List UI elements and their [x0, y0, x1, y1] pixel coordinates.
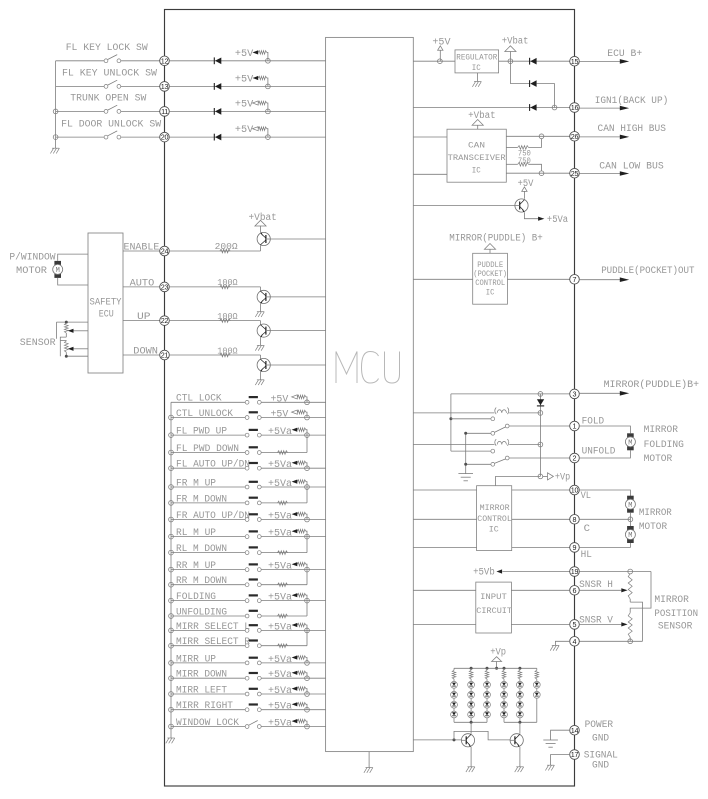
+5Va pull-up (FR M UP): [268, 478, 307, 489]
LED D24: [468, 711, 475, 718]
svg-text:6: 6: [573, 586, 577, 595]
label TRUNK OPEN SW: [70, 93, 146, 104]
junction (bus / FR AUTO UP/DN): [169, 517, 174, 522]
+5Va pull-up (MIRR DOWN): [268, 669, 307, 680]
+5Va pull-up (MIRR LEFT): [268, 685, 307, 696]
wire LED link: [536, 688, 538, 691]
svg-text:3: 3: [573, 390, 577, 399]
svg-text:+5Va: +5Va: [268, 701, 292, 712]
wire LED column 4 to return bus: [503, 718, 505, 722]
+5Va pull-up (MIRR SELECT L): [268, 621, 307, 632]
wire sensor wiper lower: [68, 347, 88, 351]
transistor (AUTO driver): [257, 290, 270, 303]
wire HL to pin 9: [512, 546, 570, 548]
wire RR M UP to MCU: [261, 569, 325, 571]
svg-text:23: 23: [161, 283, 169, 292]
+5Va pull-up (RL M UP): [268, 528, 307, 539]
svg-text:SNSR H: SNSR H: [579, 579, 613, 590]
motor M4 (mirror horizontal): [625, 526, 635, 543]
wire RL M UP to MCU: [261, 536, 325, 538]
LED D31: [484, 681, 491, 688]
junction (bus / MIRR UP): [169, 661, 174, 666]
resistor sensor H: [628, 574, 632, 603]
ground (DOWN driver): [255, 380, 264, 385]
svg-text:FOLD: FOLD: [582, 416, 605, 427]
+B feed (puddle IC): [484, 244, 495, 254]
label FOLDING: [176, 591, 216, 602]
pin 19: [570, 567, 580, 577]
switch FR M UP: [171, 481, 261, 489]
MCU label: [336, 352, 400, 384]
pin 15: [570, 56, 580, 66]
wire MCU to 5Va transistor base: [413, 205, 515, 207]
junction (+Vp node): [538, 474, 543, 479]
switch FL AUTO UP/DN: [171, 462, 261, 470]
wire regulator ground: [477, 73, 479, 82]
diode D2 (backup feed): [530, 80, 537, 87]
junction (common 2): [464, 463, 467, 466]
svg-text:CAN: CAN: [468, 140, 485, 150]
wire FR AUTO UP/DN to MCU: [261, 519, 325, 521]
wire pin 3 row: [451, 393, 570, 395]
wire relay supply vertical: [450, 394, 452, 451]
svg-text:M: M: [628, 532, 632, 540]
junction (bus / FL DOOR UNLOCK SW): [53, 135, 58, 140]
label MIRR LEFT: [176, 684, 227, 695]
label HL: [581, 549, 592, 560]
+5V tap (regulator output): [432, 37, 450, 62]
ground (POWER GND): [543, 740, 558, 747]
module boundary frame: [165, 10, 575, 787]
wire collector to MCU (DOWN): [270, 364, 325, 366]
svg-text:+5Va: +5Va: [268, 511, 292, 522]
wire base T (AUTO): [260, 287, 262, 292]
junction (bus / RL M UP): [169, 534, 174, 539]
label DOWN: [133, 346, 158, 357]
svg-text:5: 5: [573, 620, 577, 629]
wire to relay contact 1 upper throw: [451, 418, 491, 420]
label FOLD: [582, 416, 605, 427]
svg-text:100Ω: 100Ω: [217, 277, 238, 288]
junction (pull-up FL AUTO UP/DN): [305, 466, 310, 471]
svg-text:200Ω: 200Ω: [215, 241, 238, 252]
net CAN HIGH BUS: [579, 123, 666, 139]
label INPUT CIRCUIT: [476, 592, 512, 616]
LED D43: [501, 701, 508, 708]
wire RR M DOWN to shared pull-up: [261, 570, 307, 585]
wire Q2 collector: [519, 722, 521, 734]
pin 24: [160, 246, 170, 256]
wire pin 19 to sensor top: [579, 571, 651, 573]
wire +Vbat to D2: [510, 61, 529, 83]
net IGN1(BACK UP): [579, 95, 668, 111]
ground (AUTO driver): [255, 312, 264, 317]
junction (bus / UNFOLDING): [169, 614, 174, 619]
wire LED link: [453, 708, 455, 711]
pin 5: [570, 620, 580, 630]
svg-text:+5V: +5V: [235, 98, 253, 109]
svg-text:POSITION: POSITION: [654, 608, 698, 619]
junction (pull-up RL M UP): [305, 534, 310, 539]
svg-text:21: 21: [161, 351, 169, 360]
svg-text:100Ω: 100Ω: [217, 345, 238, 356]
wire puddle IC to pin 7: [507, 278, 569, 280]
wire DOWN row: [123, 354, 160, 356]
label FL DOOR UNLOCK SW: [61, 118, 161, 129]
wire MIRR LEFT to MCU: [261, 693, 325, 695]
wire LED link: [470, 708, 472, 711]
wire MCU to regulator IC: [413, 60, 455, 62]
wire LED column 1 to return bus: [453, 718, 455, 722]
switch CTL LOCK: [171, 396, 261, 404]
label UNFOLD: [582, 446, 616, 457]
pin 11: [160, 107, 170, 117]
junction (+5V pull-up 11): [266, 109, 271, 114]
switch MIRR SELECT L: [171, 624, 261, 632]
wire base jog to Q2: [454, 731, 510, 740]
wire pin 17 to signal ground: [551, 755, 571, 766]
svg-text:26: 26: [571, 132, 579, 141]
svg-text:MIRROR: MIRROR: [644, 424, 679, 435]
svg-text:24: 24: [161, 247, 169, 256]
wire base T (DOWN): [260, 355, 262, 360]
wire emitter to ground (AUTO): [260, 303, 262, 312]
wire sensor wiper upper: [68, 329, 88, 333]
net +Vp (LED array): [490, 647, 506, 669]
motor M (P/WINDOW): [53, 261, 63, 278]
junction (pull-up MIRR LEFT): [305, 692, 310, 697]
label SNSR V: [579, 614, 613, 625]
label FL KEY UNLOCK SW: [62, 68, 157, 79]
LED D11: [451, 681, 458, 688]
switch FR AUTO UP/DN: [171, 513, 261, 521]
wire AUTO row: [123, 286, 160, 288]
transistor Q2 (LED driver): [510, 734, 523, 747]
wire regulator to pin 15: [499, 60, 570, 62]
wire UNFOLDING to shared pull-up: [261, 601, 307, 616]
wire base T1: [260, 245, 262, 251]
wire LED link: [486, 708, 488, 711]
svg-text:7: 7: [573, 275, 577, 284]
relay coil K1 (fold): [413, 408, 540, 415]
svg-text:+5Va: +5Va: [268, 654, 292, 665]
+5V pull-up (input 20): [235, 124, 268, 137]
junction (pull-up WINDOW LOCK): [305, 724, 310, 729]
svg-text:+5Va: +5Va: [268, 669, 292, 680]
wire MIRR RIGHT to MCU: [261, 709, 325, 711]
svg-text:+5Vb: +5Vb: [473, 566, 495, 577]
switch UNFOLDING: [171, 610, 261, 618]
switch RR M UP: [171, 563, 261, 571]
svg-text:CAN HIGH BUS: CAN HIGH BUS: [598, 123, 667, 134]
switch MIRR LEFT: [171, 688, 261, 696]
svg-text:SENSOR: SENSOR: [658, 621, 693, 632]
wire UP row: [123, 320, 160, 322]
+5V pull-up (CTL LOCK): [271, 393, 308, 404]
svg-text:22: 22: [161, 316, 169, 325]
LED D54: [517, 711, 524, 718]
resistor (LED column 5): [518, 668, 522, 681]
pin 7: [570, 275, 580, 285]
ground (switch bus): [50, 148, 59, 153]
LED D53: [517, 701, 524, 708]
resistor 100Ω (UP): [217, 311, 238, 323]
junction (pin3 / diode): [538, 392, 543, 397]
label SNSR H: [579, 579, 613, 590]
net +5Va output: [524, 212, 568, 225]
svg-text:+5V: +5V: [235, 124, 253, 135]
wire LED link: [486, 698, 488, 701]
svg-text:+5Va: +5Va: [268, 459, 292, 470]
transistor T1 (enable driver): [257, 232, 270, 245]
LED D22: [468, 691, 475, 698]
label MIRR SELECT R: [176, 636, 250, 647]
wire LED link: [519, 698, 521, 701]
junction (pull-up MIRR RIGHT): [305, 707, 310, 712]
svg-text:4: 4: [573, 637, 577, 646]
svg-text:VL: VL: [581, 490, 592, 501]
LED D42: [501, 691, 508, 698]
ground (UP driver): [255, 345, 264, 350]
junction (pull-up RR M UP): [305, 567, 310, 572]
svg-text:19: 19: [571, 567, 579, 576]
wire pin 6 wiper (SNSR H): [579, 588, 627, 592]
+5Va pull-up (MIRR UP): [268, 654, 307, 665]
label POWER GND: [585, 719, 614, 744]
svg-text:MIRROR(PUDDLE) B+: MIRROR(PUDDLE) B+: [449, 233, 543, 244]
label SAFETY ECU: [90, 296, 122, 319]
+5Va pull-up (FL PWD UP): [268, 426, 307, 437]
switch MIRR SELECT R: [171, 639, 261, 647]
junction (bus / RR M DOWN): [169, 582, 174, 587]
transistor Q3 (+5Va switch): [515, 199, 528, 212]
svg-text:+Vbat: +Vbat: [249, 212, 277, 223]
wire Q1 emitter to ground: [470, 747, 472, 767]
svg-text:IGN1(BACK UP): IGN1(BACK UP): [595, 95, 669, 106]
svg-text:25: 25: [571, 169, 579, 178]
wire MCU to input circuit (V): [413, 623, 476, 625]
resistor 750 (CANH term): [506, 139, 541, 158]
+5V pull-up (CTL UNLOCK): [271, 409, 308, 420]
LED D44: [501, 711, 508, 718]
label RL M UP: [176, 527, 216, 538]
pin 20: [160, 132, 170, 142]
pin 4: [570, 637, 580, 647]
pin 10: [570, 485, 580, 495]
svg-text:MIRROR: MIRROR: [639, 507, 672, 518]
junction (return bus 1): [470, 721, 473, 724]
label FL KEY LOCK SW: [66, 42, 148, 53]
wire LED link: [470, 698, 472, 701]
wire CTL LOCK to MCU: [261, 401, 325, 403]
wire MCU to mirror control (VL): [413, 489, 476, 491]
switch TRUNK OPEN SW: [56, 105, 160, 113]
switch FOLDING: [171, 594, 261, 602]
+5Va pull-up (FR AUTO UP/DN): [268, 511, 307, 522]
svg-text:TRANSCEIVER: TRANSCEIVER: [448, 153, 506, 163]
wire MCU ground stem: [368, 752, 370, 768]
junction (bus / CTL UNLOCK): [169, 415, 174, 420]
svg-text:MIRROR: MIRROR: [654, 594, 689, 605]
junction (bus / RL M DOWN): [169, 550, 174, 555]
svg-text:SNSR V: SNSR V: [579, 614, 613, 625]
input circuit U7 box: [476, 582, 512, 633]
wire motor to safety ECU (lower): [58, 278, 88, 285]
label MIRROR MOTOR: [639, 507, 672, 532]
wire MIRR SELECT R to shared pull-up: [261, 630, 307, 645]
resistor (RR M DOWN): [278, 583, 288, 587]
label RR M DOWN: [176, 575, 227, 586]
+5Va pull-up (WINDOW LOCK): [268, 718, 307, 729]
pin 26: [570, 132, 580, 142]
svg-text:REGULATOR: REGULATOR: [456, 53, 497, 63]
switch WINDOW LOCK: [171, 721, 261, 729]
svg-text:M: M: [56, 267, 60, 275]
junction (coil K1 / supply): [538, 411, 543, 416]
wire FOLDING to MCU: [261, 600, 325, 602]
LED D34: [484, 711, 491, 718]
pin 21: [160, 350, 170, 360]
+Vbat (T1): [249, 212, 277, 226]
LED D41: [501, 681, 508, 688]
label FL PWD DOWN: [176, 443, 239, 454]
pin 16: [570, 103, 580, 113]
resistor 200Ω: [215, 241, 238, 253]
label WINDOW LOCK: [176, 717, 239, 728]
wire MCU to Q1/Q2 base: [413, 739, 461, 741]
label FR AUTO UP/DN: [176, 510, 250, 521]
junction (pull-up FOLDING): [305, 598, 310, 603]
junction (return bus 2): [518, 721, 521, 724]
wire LED column 3 to return bus: [486, 718, 488, 722]
wire input circuit to pin 5: [511, 623, 569, 625]
resistor (FL PWD DOWN): [278, 451, 288, 455]
wire MCU to puddle IC: [413, 278, 472, 280]
label CAN TRANSCEIVER IC: [448, 140, 506, 175]
wire collector to MCU (UP): [270, 330, 325, 332]
wire LED link: [470, 688, 472, 691]
svg-text:+5V: +5V: [271, 393, 289, 404]
junction (bus / TRUNK OPEN SW): [53, 109, 58, 114]
svg-text:+5V: +5V: [518, 178, 534, 189]
label RL M DOWN: [176, 543, 227, 554]
wire CTL UNLOCK to MCU: [261, 417, 325, 419]
resistor (LED column 1): [452, 668, 456, 681]
wire MCU to input circuit (H): [413, 589, 476, 591]
wire sensor V feed bracket: [630, 572, 651, 613]
svg-text:+Vbat: +Vbat: [502, 36, 529, 47]
svg-text:+5V: +5V: [432, 37, 450, 48]
svg-text:FL DOOR UNLOCK SW: FL DOOR UNLOCK SW: [61, 118, 161, 129]
LED D12: [451, 691, 458, 698]
junction (LED bus): [470, 667, 473, 670]
wire FR M DOWN to shared pull-up: [261, 487, 307, 503]
wire emitter to ground (DOWN): [260, 371, 262, 380]
junction (D2 / IGN1): [552, 105, 557, 110]
junction (sensor top): [65, 321, 68, 324]
label UNFOLDING: [176, 606, 227, 617]
transistor (UP driver): [257, 324, 270, 337]
junction (pull-up CTL LOCK): [305, 400, 310, 405]
net +Vp (relay): [543, 471, 570, 482]
junction (pull-up MIRR SELECT L): [305, 628, 310, 633]
LED D33: [484, 701, 491, 708]
svg-text:SAFETY: SAFETY: [90, 296, 122, 307]
wire LED link: [486, 688, 488, 691]
wire pin 9 to mirror motor B: [579, 543, 630, 547]
wire T1 collector to MCU: [270, 238, 325, 240]
diode D4 (relay clamp): [537, 394, 544, 477]
wire pin 8 to motor common: [579, 513, 630, 527]
switch MIRR DOWN: [171, 672, 261, 680]
mirror control IC U6 box: [477, 486, 512, 551]
label CTL LOCK: [176, 393, 222, 404]
junction (sensor H top): [628, 569, 633, 574]
junction (bus / MIRR RIGHT): [169, 707, 174, 712]
junction (pull-up CTL UNLOCK): [305, 415, 310, 420]
junction (bus / MIRR SELECT R): [169, 643, 174, 648]
junction (+5V pull-up 20): [266, 135, 271, 140]
+5Va pull-up (FL AUTO UP/DN): [268, 459, 307, 470]
wire MCU to mirror control (C): [413, 518, 476, 520]
LED D23: [468, 701, 475, 708]
wire pin 1 to folding motor: [579, 426, 630, 433]
svg-text:8: 8: [573, 515, 577, 524]
resistor (LED column 6): [535, 668, 539, 681]
wire MIRR UP to MCU: [261, 662, 325, 664]
junction (CANL): [539, 171, 544, 176]
svg-text:INPUT: INPUT: [480, 592, 507, 602]
LED D62: [533, 691, 540, 698]
wire LED return bus 1: [454, 721, 487, 723]
wire pin 10 to mirror motor A: [579, 490, 630, 496]
wire pin 2 row: [509, 457, 570, 459]
label SIGNAL GND: [584, 750, 618, 771]
puddle control IC U5 box: [473, 253, 508, 304]
pin 3: [570, 389, 580, 399]
junction (bus / FOLDING): [169, 598, 174, 603]
junction (+Vbat / pin15 line): [508, 59, 513, 64]
wire FL AUTO UP/DN to MCU: [261, 467, 325, 469]
wire LED link: [453, 698, 455, 701]
wire MIRR DOWN to MCU: [261, 677, 325, 679]
switch FL PWD UP: [171, 429, 261, 437]
wire pin 24 to base resistor: [169, 250, 260, 252]
svg-text:+5Va: +5Va: [547, 214, 568, 225]
svg-text:IC: IC: [489, 524, 499, 534]
junction (motor common): [628, 517, 633, 522]
junction (coil K2 / supply): [538, 442, 543, 447]
relay coil K2 (unfold): [413, 439, 540, 446]
wire RL M DOWN to shared pull-up: [261, 537, 307, 553]
LED D51: [517, 681, 524, 688]
wire emitter to ground (UP): [260, 337, 262, 346]
LED D21: [468, 681, 475, 688]
LED D61: [533, 681, 540, 688]
svg-text:+5Va: +5Va: [268, 528, 292, 539]
MCU U1 box: [326, 37, 414, 751]
wire pin 5 wiper (SNSR V): [579, 622, 627, 626]
wire pin 23 to base resistor: [169, 286, 260, 288]
net +5Vb: [473, 566, 570, 577]
svg-text:20: 20: [161, 133, 169, 142]
+5V pull-up (input 13): [235, 73, 268, 86]
svg-text:10: 10: [571, 486, 579, 495]
wire relay commons to ground: [466, 433, 491, 473]
ground (relay commons): [458, 474, 473, 481]
label MIRROR POSITION SENSOR: [654, 594, 698, 632]
pin 14: [570, 725, 580, 735]
